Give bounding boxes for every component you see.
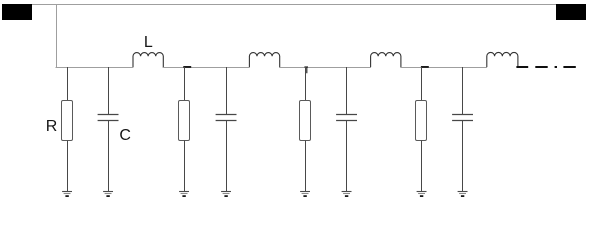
ground G6 [342, 191, 352, 193]
bus wire segment 4 (node N4) [400, 67, 487, 69]
resistor R (section 4) bottom wire [421, 141, 423, 192]
ground G3 [179, 191, 189, 193]
capacitor C (section 3) top wire [346, 67, 348, 114]
capacitor C (section 3) bottom wire [346, 121, 348, 192]
capacitor C (section 2) plates [216, 115, 237, 121]
svg-text:L: L [144, 34, 153, 51]
bus wire segment 2 (node N2) [163, 67, 250, 69]
ground G1 [62, 191, 72, 193]
resistor R (section 3) top wire [305, 67, 307, 101]
inductor L4 [487, 52, 518, 67]
resistor R (section 4) top wire [421, 67, 423, 101]
terminal block right (black pad) [556, 4, 586, 20]
input feed wire (vertical from top bus to ladder bus) [56, 5, 58, 69]
continuation dash-dot line [516, 66, 575, 68]
resistor R (section 1) top wire [67, 67, 69, 101]
bus wire segment 1 (node N1) [56, 67, 134, 69]
capacitor C (section 2) top wire [226, 67, 228, 114]
ground G4 [221, 191, 231, 193]
capacitor C (section 1) top wire [108, 67, 110, 114]
ground G2 [103, 191, 113, 193]
resistor R (section 2) bottom wire [184, 141, 186, 192]
ground G5 [300, 191, 310, 193]
svg-text:R: R [46, 118, 58, 135]
terminal block left (black pad) [2, 4, 32, 20]
inductor L2 [249, 53, 279, 67]
inductor L1 [133, 53, 163, 67]
ground G7 [417, 191, 427, 193]
bus wire segment 3 (node N3) [279, 67, 371, 69]
junction mark at node N3 [304, 67, 308, 73]
inductor L3 [371, 53, 401, 67]
capacitor C (section 4) plates [452, 115, 473, 121]
capacitor C (section 1) plates [98, 115, 119, 121]
resistor R (section 4) body [416, 101, 427, 141]
top bus wire [32, 4, 556, 6]
capacitor C (section 3) plates [336, 115, 357, 121]
resistor R (section 1) body [62, 101, 73, 141]
junction mark at node N2 [183, 66, 191, 68]
capacitor C (section 1) bottom wire [108, 121, 110, 192]
resistor R (section 1) bottom wire [67, 141, 69, 192]
svg-text:C: C [119, 127, 131, 144]
resistor R (section 2) top wire [184, 67, 186, 101]
resistor R (section 3) bottom wire [305, 141, 307, 192]
capacitor C (section 4) bottom wire [462, 121, 464, 192]
ground G8 [458, 191, 468, 193]
resistor R (section 3) body [300, 101, 311, 141]
capacitor C (section 4) top wire [462, 67, 464, 114]
resistor R (section 2) body [179, 101, 190, 141]
capacitor C (section 2) bottom wire [226, 121, 228, 192]
junction mark at node N4 [421, 66, 429, 68]
